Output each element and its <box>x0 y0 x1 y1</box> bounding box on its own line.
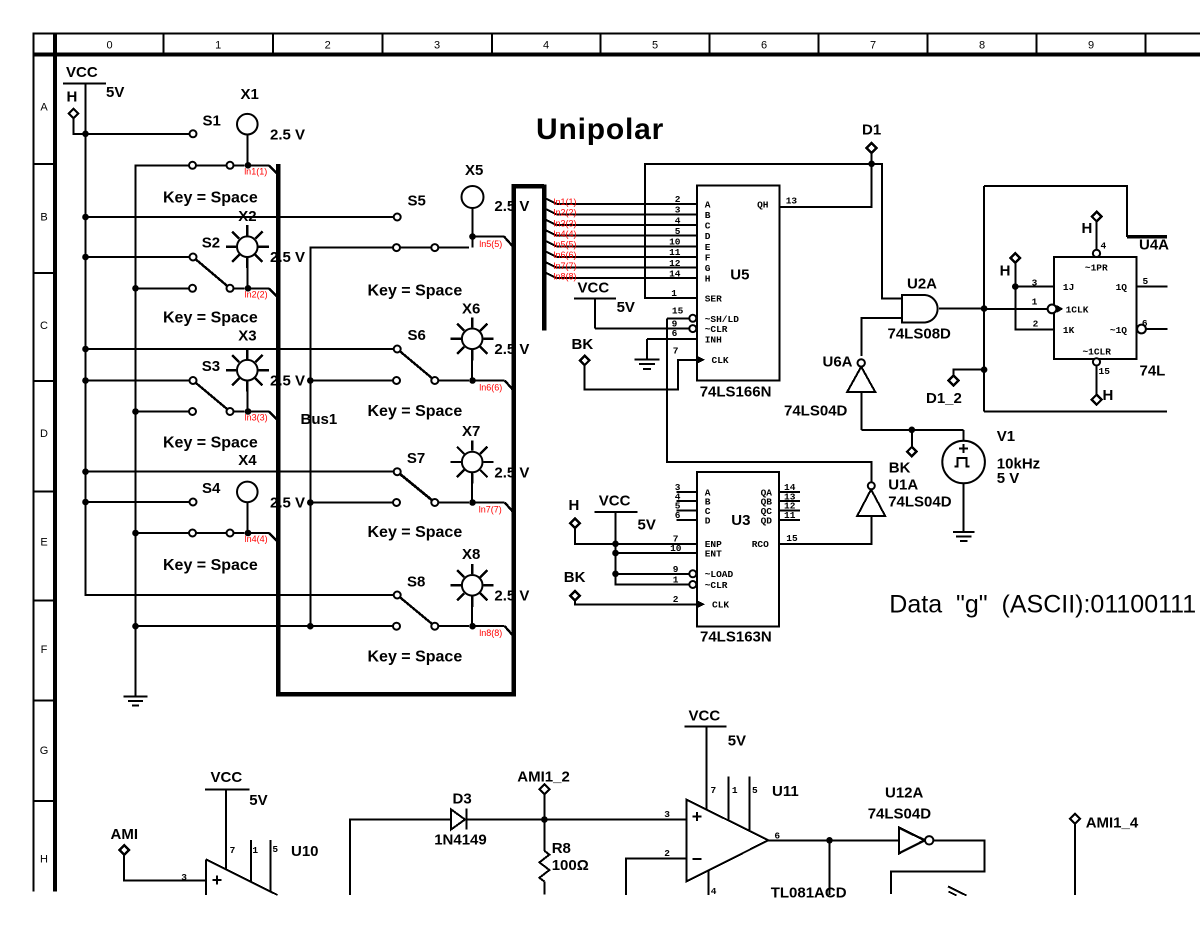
svg-text:QH: QH <box>757 199 769 210</box>
svg-text:Key = Space: Key = Space <box>368 649 463 666</box>
svg-text:4: 4 <box>543 40 549 52</box>
node BK at U5 <box>572 336 594 365</box>
svg-text:AMI: AMI <box>111 826 139 843</box>
svg-text:H: H <box>67 89 78 106</box>
svg-text:1K: 1K <box>1063 325 1075 336</box>
svg-text:TL081ACD: TL081ACD <box>771 885 847 902</box>
svg-text:10: 10 <box>669 237 681 248</box>
svg-text:X8: X8 <box>462 546 480 563</box>
svg-text:S8: S8 <box>407 574 425 591</box>
svg-text:2.5 V: 2.5 V <box>270 127 305 144</box>
svg-text:1N4149: 1N4149 <box>434 832 487 849</box>
wire U6A output to U2A input B <box>861 318 902 356</box>
svg-text:CLK: CLK <box>712 600 729 611</box>
svg-text:QD: QD <box>761 515 773 526</box>
svg-text:~1PR: ~1PR <box>1085 262 1108 273</box>
diode D3 1N4149 <box>434 791 487 849</box>
junction node ln6 <box>469 377 476 384</box>
switch S5 (open up, blade down) <box>309 193 469 252</box>
svg-text:H: H <box>1103 387 1114 404</box>
svg-text:12: 12 <box>669 258 681 269</box>
svg-text:2: 2 <box>664 848 670 859</box>
svg-text:2: 2 <box>675 194 681 205</box>
svg-text:X3: X3 <box>238 328 256 345</box>
svg-text:S3: S3 <box>202 358 220 375</box>
svg-text:Data "g" (ASCII):01100111: Data "g" (ASCII):01100111 <box>889 591 1196 619</box>
svg-text:3: 3 <box>664 809 670 820</box>
junction dots on left ground rail <box>132 285 139 630</box>
svg-text:E: E <box>705 242 711 253</box>
wire VCC to S8 (rail corner feed) <box>0 0 1 1</box>
svg-text:A: A <box>40 102 48 114</box>
U4A pin 1 1CLK bubble and edge triangle <box>1032 297 1064 314</box>
svg-text:B: B <box>705 210 711 221</box>
svg-text:ENT: ENT <box>705 548 722 559</box>
svg-text:~CLR: ~CLR <box>705 580 728 591</box>
IC U3 74LS163N body <box>697 472 779 646</box>
svg-text:~1CLR: ~1CLR <box>1082 346 1111 357</box>
svg-text:D1_2: D1_2 <box>926 390 962 407</box>
svg-text:2.5 V: 2.5 V <box>270 249 305 266</box>
U3 output stub wires QA-QD <box>779 492 800 520</box>
svg-text:ln4(4): ln4(4) <box>245 534 268 544</box>
U5 pin name labels <box>705 199 769 366</box>
svg-text:D3: D3 <box>453 791 472 808</box>
wire left to D3 <box>350 820 451 896</box>
svg-text:VCC: VCC <box>689 708 721 725</box>
svg-text:2.5 V: 2.5 V <box>494 465 529 482</box>
svg-text:ln8(8): ln8(8) <box>479 628 502 638</box>
svg-text:6: 6 <box>672 328 678 339</box>
junction node ln3 <box>245 408 252 415</box>
wire stub S7 to bus with net ln7(7) <box>476 503 513 512</box>
junction dots on middle ground rail <box>307 377 314 629</box>
svg-text:7: 7 <box>711 785 717 796</box>
node AMI1_4 <box>1070 814 1139 895</box>
frame column numbers <box>106 40 1094 52</box>
wire middle ground rail <box>309 248 311 627</box>
svg-text:9: 9 <box>1088 40 1094 52</box>
svg-text:V1: V1 <box>997 428 1015 445</box>
U5 pin 1 SER wire loop to QH/D1 <box>645 164 871 299</box>
svg-text:3: 3 <box>181 872 187 883</box>
wire stub S4 to bus with net ln4(4) <box>251 533 277 541</box>
wire BK to U3 CLK <box>575 594 697 605</box>
wire stub S5 to bus with net ln5(5) <box>473 236 513 246</box>
svg-text:VCC: VCC <box>66 64 98 81</box>
bus fanout diagonals to U5 inputs <box>546 199 557 279</box>
wire left ground rail <box>135 165 137 626</box>
ground symbol under V1 <box>953 483 975 541</box>
switch S6 (blade up = 1) <box>309 327 469 384</box>
svg-text:11: 11 <box>784 510 796 521</box>
wire VCC to S7 <box>86 471 394 473</box>
svg-text:3: 3 <box>675 205 681 216</box>
junction node ln5 <box>469 233 476 247</box>
svg-text:4: 4 <box>1101 241 1107 252</box>
svg-text:6: 6 <box>761 40 767 52</box>
svg-text:13: 13 <box>786 196 798 207</box>
svg-text:VCC: VCC <box>578 280 610 297</box>
wire ground to S8 lower <box>136 625 394 627</box>
svg-text:Bus1: Bus1 <box>301 411 338 428</box>
svg-text:U12A: U12A <box>885 785 924 802</box>
node AMI1_2 <box>517 769 570 820</box>
U5 pin 6 INH wire to ground <box>647 328 697 339</box>
U3 pin name labels <box>705 487 773 610</box>
svg-text:~1Q: ~1Q <box>1110 325 1127 336</box>
gate U12A 74LS04D inverter <box>868 785 934 854</box>
svg-text:Unipolar: Unipolar <box>536 113 664 146</box>
node H above U4A ~1PR pin 4 <box>1082 212 1107 257</box>
svg-text:X5: X5 <box>465 162 483 179</box>
svg-text:~CLR: ~CLR <box>705 324 728 335</box>
svg-text:U10: U10 <box>291 843 319 860</box>
power VCC 5V at U3 <box>595 493 656 534</box>
svg-text:1Q: 1Q <box>1116 282 1128 293</box>
junction node ln7 <box>469 499 476 506</box>
U4A pin name labels <box>1063 262 1127 357</box>
junction dots on VCC rail <box>82 131 89 506</box>
switch S8 (blade up = 1) <box>393 574 469 630</box>
svg-text:ln7(7): ln7(7) <box>479 505 502 515</box>
svg-text:ln3(3): ln3(3) <box>245 413 268 423</box>
svg-text:74LS04D: 74LS04D <box>868 806 932 823</box>
svg-text:ln6(6): ln6(6) <box>479 383 502 393</box>
svg-text:74LS04D: 74LS04D <box>888 493 952 510</box>
svg-text:15: 15 <box>786 533 798 544</box>
svg-text:14: 14 <box>669 268 681 279</box>
wire U3 RCO to U1A input <box>779 516 872 544</box>
wire U2A output <box>939 305 988 312</box>
U3 pin 10 ENT wire <box>616 543 698 554</box>
wire U1A output to U5 ~SH/LD <box>667 318 871 482</box>
svg-text:D: D <box>705 231 711 242</box>
svg-text:BK: BK <box>572 336 594 353</box>
wires bus to U5 inputs A-H <box>557 204 698 278</box>
svg-text:2.5 V: 2.5 V <box>494 341 529 358</box>
wire stub S8 to bus with net ln8(8) <box>476 626 513 635</box>
U5 pin 9 ~CLR wire from VCC <box>595 318 696 332</box>
svg-text:CLK: CLK <box>712 355 729 366</box>
lamp X8 (lit) <box>451 546 530 624</box>
svg-text:S2: S2 <box>202 235 220 252</box>
svg-text:5V: 5V <box>106 84 124 101</box>
wire VCC to S6 <box>86 348 394 350</box>
svg-text:7: 7 <box>230 845 236 856</box>
U5 pin 15 ~SH/LD wire from U1A <box>667 305 696 322</box>
svg-text:BK: BK <box>889 459 911 476</box>
svg-text:H: H <box>40 854 48 866</box>
wire VCC to S1 <box>86 133 190 135</box>
U5 CLK edge triangle <box>697 356 705 364</box>
svg-text:1: 1 <box>215 40 221 52</box>
svg-text:5V: 5V <box>249 792 267 809</box>
IC U4A body <box>1054 237 1169 380</box>
wire VCC to S3 <box>86 380 190 382</box>
svg-text:0: 0 <box>106 40 112 52</box>
svg-text:H: H <box>569 497 580 514</box>
svg-text:F: F <box>705 252 711 263</box>
svg-text:ln1(1): ln1(1) <box>554 197 577 207</box>
svg-text:ln2(2): ln2(2) <box>245 290 268 300</box>
svg-text:5: 5 <box>1143 276 1149 287</box>
svg-text:G: G <box>40 745 49 757</box>
gate U2A 74LS08D AND <box>888 276 952 343</box>
svg-text:7: 7 <box>673 345 679 356</box>
ground symbol left rail <box>124 626 148 706</box>
U5 input pin numbers <box>669 194 681 279</box>
svg-text:5V: 5V <box>617 299 635 316</box>
svg-text:D1: D1 <box>862 122 881 139</box>
node BK at U3 <box>564 569 586 601</box>
svg-text:ln4(4): ln4(4) <box>554 229 577 239</box>
svg-text:D: D <box>40 428 48 440</box>
U3 pin 9 ~LOAD wire <box>616 564 697 578</box>
svg-text:E: E <box>40 537 47 549</box>
wire BK to U5 CLK <box>585 345 697 389</box>
svg-text:3: 3 <box>434 40 440 52</box>
U5 pin 13 QH output wire <box>780 164 872 207</box>
svg-text:B: B <box>40 212 47 224</box>
wire D1 net to U2A input A <box>872 164 902 299</box>
U3 data input pin numbers 3-6 <box>675 482 681 521</box>
frame row letters <box>40 102 49 866</box>
wire stub S6 to bus with net ln6(6) <box>476 381 513 390</box>
svg-text:Key = Space: Key = Space <box>163 435 258 452</box>
svg-text:ln5(5): ln5(5) <box>554 240 577 250</box>
resistor R8 100 ohm <box>539 820 588 895</box>
wire U2A output net vertical <box>983 186 985 411</box>
svg-text:RCO: RCO <box>752 539 769 550</box>
svg-text:U2A: U2A <box>907 276 937 293</box>
svg-text:S7: S7 <box>407 450 425 467</box>
svg-text:15: 15 <box>1099 366 1111 377</box>
svg-text:6: 6 <box>675 510 681 521</box>
wire U2A net bottom stub <box>984 410 1167 412</box>
svg-text:74LS163N: 74LS163N <box>700 629 772 646</box>
switch S2 (blade up = 1) <box>135 235 245 292</box>
U4A pin 6 ~1Q output wire <box>1137 318 1168 333</box>
svg-text:S1: S1 <box>203 113 221 130</box>
U11 top pin stubs 7 1 5 <box>707 726 758 831</box>
svg-text:Key = Space: Key = Space <box>368 524 463 541</box>
node H at U3 <box>569 497 616 544</box>
svg-text:ln3(3): ln3(3) <box>554 218 577 228</box>
svg-text:C: C <box>705 221 711 232</box>
svg-text:F: F <box>41 644 48 656</box>
svg-text:ln6(6): ln6(6) <box>554 250 577 260</box>
node AMI <box>111 826 206 881</box>
node D1 <box>862 122 881 168</box>
wire U6A input node to V1 <box>861 427 963 434</box>
lamp X6 (lit) <box>451 301 530 379</box>
IC U5 74LS166N body <box>697 186 780 401</box>
svg-text:ln8(8): ln8(8) <box>554 271 577 281</box>
svg-text:2.5 V: 2.5 V <box>270 494 305 511</box>
U4A ~1CLR pin 15 to H node <box>1092 358 1114 404</box>
gate fragment below (clipped) <box>948 886 967 895</box>
power VCC 5V top-left <box>63 64 124 101</box>
junction node ln8 <box>469 623 476 630</box>
svg-text:G: G <box>705 263 711 274</box>
power VCC 5V at U5 <box>574 280 635 329</box>
svg-text:5: 5 <box>272 844 278 855</box>
svg-text:S4: S4 <box>202 480 221 497</box>
svg-text:5 V: 5 V <box>997 470 1020 487</box>
switch S3 (blade up = 1) <box>135 358 245 415</box>
op-amp U11 TL081ACD <box>687 783 847 902</box>
U3 pin 1 ~CLR bubble <box>673 574 697 588</box>
svg-text:U4A: U4A <box>1139 237 1169 254</box>
svg-text:5V: 5V <box>638 517 656 534</box>
wire stub S1 to bus with net ln1(1) <box>251 165 277 173</box>
source V1 10kHz 5V clock <box>942 428 1040 487</box>
svg-text:5: 5 <box>675 226 681 237</box>
wire VCC to S5 <box>86 216 394 218</box>
svg-text:Key = Space: Key = Space <box>368 283 463 300</box>
svg-text:74LS08D: 74LS08D <box>888 326 952 343</box>
U4A pin 3 1J wire <box>1015 278 1054 289</box>
svg-text:5: 5 <box>752 785 758 796</box>
svg-text:R8: R8 <box>552 840 571 857</box>
svg-text:VCC: VCC <box>599 493 631 510</box>
power VCC 5V at U11 <box>684 708 746 750</box>
svg-text:1: 1 <box>673 574 679 585</box>
svg-text:4: 4 <box>711 886 717 897</box>
wire VCC stem to U3 control pins <box>612 512 689 585</box>
svg-text:ln2(2): ln2(2) <box>554 208 577 218</box>
svg-text:2.5 V: 2.5 V <box>270 373 305 390</box>
svg-text:7: 7 <box>870 40 876 52</box>
svg-text:S6: S6 <box>408 327 426 344</box>
svg-text:U3: U3 <box>731 512 750 529</box>
junction node ln1 <box>245 162 252 169</box>
svg-text:4: 4 <box>675 215 681 226</box>
U4A pin 5 1Q output wire <box>1137 276 1168 287</box>
svg-text:~LOAD: ~LOAD <box>705 569 734 580</box>
U11 pin 4 bottom stub <box>709 870 717 897</box>
U3 output pin numbers 14-11 <box>784 482 796 521</box>
wire U12A output feedback <box>891 840 984 894</box>
svg-text:INH: INH <box>705 335 722 346</box>
svg-text:H: H <box>705 274 711 285</box>
svg-text:Key = Space: Key = Space <box>368 403 463 420</box>
svg-text:1: 1 <box>1032 297 1038 308</box>
switch S4 (open up, blade down) <box>135 480 245 537</box>
svg-text:H: H <box>1000 262 1011 279</box>
svg-text:15: 15 <box>672 305 684 316</box>
svg-text:BK: BK <box>564 569 586 586</box>
switch S1 (open up, blade down) <box>135 113 245 169</box>
switch S7 (blade up = 1) <box>309 450 469 506</box>
wire V1 clock to U6A input <box>860 392 862 430</box>
bus Bus1 <box>278 164 544 694</box>
svg-text:A: A <box>705 199 711 210</box>
wire U2A net top to right stub <box>984 186 1167 237</box>
svg-text:U11: U11 <box>772 783 799 800</box>
svg-text:SER: SER <box>705 293 722 304</box>
op-amp U10 (clipped) <box>181 790 318 896</box>
svg-text:1: 1 <box>252 845 258 856</box>
svg-text:2: 2 <box>325 40 331 52</box>
U3 pin 7 ENP wire <box>616 534 698 545</box>
svg-text:H: H <box>1082 220 1093 237</box>
lamp X1 (off) <box>237 86 305 163</box>
U3 CLK edge triangle <box>697 600 705 608</box>
svg-text:X6: X6 <box>462 301 480 318</box>
svg-text:5: 5 <box>652 40 658 52</box>
svg-text:X4: X4 <box>238 452 257 469</box>
lamp X2 (lit) <box>226 208 305 286</box>
power VCC 5V at U10 <box>205 769 268 809</box>
svg-text:AMI1_4: AMI1_4 <box>1086 815 1139 832</box>
svg-text:X1: X1 <box>241 86 259 103</box>
svg-text:AMI1_2: AMI1_2 <box>517 769 570 786</box>
svg-text:74L: 74L <box>1140 363 1166 380</box>
wire main VCC rail <box>86 84 398 596</box>
U3 data input stub wires A-D <box>677 492 698 520</box>
lamp X4 (off) <box>237 452 305 531</box>
svg-text:U5: U5 <box>730 267 749 284</box>
net labels ln1-ln8 at U5 inputs <box>554 197 577 281</box>
U11 output wire <box>768 830 899 895</box>
svg-text:C: C <box>40 320 48 332</box>
svg-text:Key = Space: Key = Space <box>163 310 258 327</box>
node H top-left <box>67 89 86 134</box>
svg-text:Key = Space: Key = Space <box>163 190 258 207</box>
svg-text:74LS166N: 74LS166N <box>700 384 772 401</box>
lamp X7 (lit) <box>451 423 530 501</box>
svg-text:1CLK: 1CLK <box>1066 304 1089 315</box>
svg-text:U1A: U1A <box>888 477 918 494</box>
wire VCC to S4 <box>86 501 190 503</box>
wire D3 to U11 + <box>466 816 686 823</box>
svg-text:Key = Space: Key = Space <box>163 557 258 574</box>
svg-text:ln5(5): ln5(5) <box>479 239 502 249</box>
wire stub S2 to bus with net ln2(2) <box>251 288 277 296</box>
svg-text:ln7(7): ln7(7) <box>554 261 577 271</box>
svg-text:X7: X7 <box>462 423 480 440</box>
lamp X5 (off) <box>462 162 530 235</box>
svg-text:2: 2 <box>1033 319 1039 330</box>
gate U6A 74LS04D inverter (points up) <box>784 354 875 420</box>
svg-text:D: D <box>705 515 711 526</box>
svg-text:VCC: VCC <box>211 769 243 786</box>
svg-text:74LS04D: 74LS04D <box>784 403 848 420</box>
svg-text:1: 1 <box>732 785 738 796</box>
lamp X3 (lit) <box>226 328 305 410</box>
svg-text:U6A: U6A <box>823 354 853 371</box>
wire VCC to S2 <box>86 256 190 258</box>
node BK at V1 <box>889 430 917 477</box>
svg-text:100Ω: 100Ω <box>552 857 589 874</box>
junction node ln4 <box>245 530 252 537</box>
U11 input wires <box>626 809 687 895</box>
svg-text:S5: S5 <box>408 193 426 210</box>
junction node ln2 <box>245 285 252 292</box>
svg-text:2.5 V: 2.5 V <box>494 198 529 215</box>
svg-text:5V: 5V <box>728 733 746 750</box>
svg-text:1J: 1J <box>1063 282 1074 293</box>
ground symbol at U5 INH <box>634 339 659 369</box>
gate U1A 74LS04D inverter (points up) <box>857 477 952 516</box>
node H at U4A 1J/1K <box>1000 253 1054 329</box>
svg-text:ln1(1): ln1(1) <box>244 167 267 177</box>
svg-text:2.5 V: 2.5 V <box>494 588 529 605</box>
node D1_2 <box>926 366 987 407</box>
wire U2A net to U4A 1CLK <box>984 308 1047 310</box>
